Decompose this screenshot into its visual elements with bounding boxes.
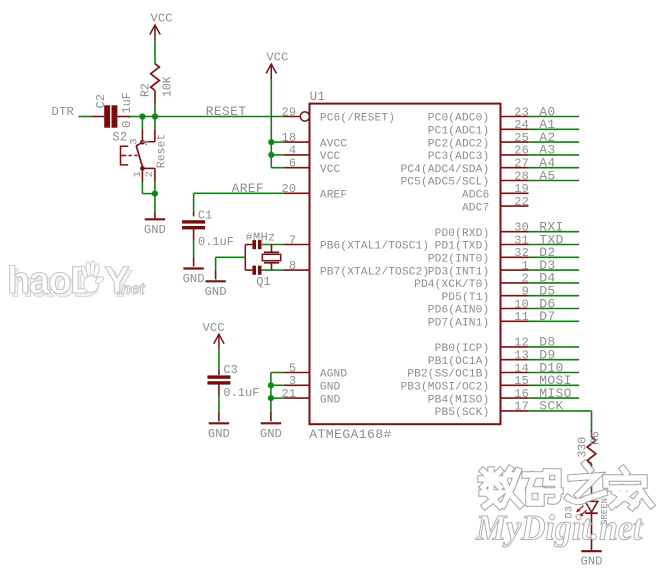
wire C3 to GND [218,385,220,395]
svg-text:AREF: AREF [320,190,347,202]
svg-text:29: 29 [281,105,296,119]
wire DTR to C2 [79,116,92,118]
pin 15 PB3(MOSI/OC2) (U1 right) [501,384,529,386]
svg-text:GND: GND [144,223,166,237]
capacitor C1 [193,193,195,212]
svg-text:R6: R6 [589,431,602,445]
pin 4 VCC (U1 left) [284,154,310,156]
svg-text:PC4(ADC4/SDA): PC4(ADC4/SDA) [400,164,489,176]
svg-text:AREF: AREF [232,181,264,196]
wire AREF net [194,192,284,194]
node junction GND pin21 [268,395,274,401]
wire net D4 [529,282,580,284]
svg-text:VCC: VCC [266,51,288,65]
svg-text:GND: GND [205,285,227,299]
pin 26 PC3(ADC3) (U1 right) [501,154,529,156]
pin 32 PD2(INT0) (U1 right) [501,256,529,258]
svg-text:PC0(ADC0): PC0(ADC0) [428,113,490,125]
wire net D7 [529,320,580,322]
svg-text:R2: R2 [139,83,152,97]
pin 19 ADC6 (U1 right) [501,192,529,194]
wire XTAL2 net [262,269,284,271]
capacitor C2 [104,105,110,127]
pin 20 AREF (U1 left) [284,192,310,194]
pin 12 PB0(ICP) (U1 right) [501,346,529,348]
svg-text:Reset: Reset [155,134,168,169]
wire net D2 [529,256,580,258]
svg-text:DTR: DTR [52,105,75,119]
svg-text:10K: 10K [161,76,174,97]
svg-text:PC3(ADC3): PC3(ADC3) [428,151,490,163]
svg-text:21: 21 [281,387,296,401]
svg-text:PD3(INT1): PD3(INT1) [428,266,490,278]
svg-text:PD0(RXD): PD0(RXD) [435,228,490,240]
switch S2 blade [136,142,142,146]
pin 24 PC1(ADC1) (U1 right) [501,128,529,130]
node junction S2/GND [152,191,158,197]
svg-text:2: 2 [144,171,156,177]
pin 6 VCC (U1 left) [284,167,310,169]
switch S2 bottom contact [140,166,145,171]
node junction VCC pin4 [268,152,274,158]
svg-text:11: 11 [514,310,529,324]
svg-text:PD2(INT0): PD2(INT0) [428,254,490,266]
svg-text:PB2(SS/OC1B): PB2(SS/OC1B) [407,369,489,381]
pin 3 GND (U1 left) [284,384,310,386]
svg-text:AVCC: AVCC [320,138,348,150]
svg-text:6: 6 [289,157,296,171]
pin 8 PB7(XTAL2/TOSC2) (U1 left) [284,269,310,271]
svg-text:PB7(XTAL2/TOSC2): PB7(XTAL2/TOSC2) [320,266,429,278]
svg-text:PD6(AIN0): PD6(AIN0) [428,305,490,317]
wire VCC to R2 [154,40,156,64]
svg-text:PB3(MOSI/OC2): PB3(MOSI/OC2) [400,382,489,394]
wire net RXI [529,231,580,233]
pin 22 ADC7 (U1 right) [501,205,529,207]
wire net D9 [529,359,580,361]
resistor R6 [587,437,596,464]
svg-text:PB5(SCK): PB5(SCK) [435,407,490,419]
svg-text:C2: C2 [94,94,108,108]
pin 10 PD6(AIN0) (U1 right) [501,308,529,310]
switch S2 pin 4 [154,117,156,130]
svg-text:ADC6: ADC6 [462,190,489,202]
wire net MOSI [529,384,580,386]
svg-text:GND: GND [183,272,205,286]
watermark logo MyDigit.net [475,464,651,548]
power symbol VCC (near U1) [270,64,272,79]
pin 25 PC2(ADC2) (U1 right) [501,141,529,143]
svg-text:GND: GND [320,394,341,406]
capacitor load cap bottom [252,266,256,275]
svg-text:ATMEGA168#: ATMEGA168# [309,427,392,442]
svg-text:330: 330 [577,437,590,458]
pin 1 PD3(INT1) (U1 right) [501,269,529,271]
power symbol VCC (top left) [154,25,156,40]
svg-text:.net: .net [117,281,145,298]
switch S2 pin 2 [142,167,155,169]
capacitor C3 [207,375,230,378]
pin 28 PC5(ADC5/SCL) (U1 right) [501,180,529,182]
svg-text:VCC: VCC [320,164,341,176]
wire net D8 [529,346,580,348]
switch S2 actuator bracket [121,146,129,165]
wire RESET net [142,116,284,118]
watermark logo haoDIY.net [7,260,145,306]
pin 5 AGND (U1 left) [284,372,310,374]
svg-text:22: 22 [514,195,529,209]
ground GND (LED) [581,550,601,552]
ground GND (U1 power) [261,422,281,424]
svg-text:PB4(MISO): PB4(MISO) [428,394,490,406]
svg-text:PC2(ADC2): PC2(ADC2) [428,138,490,150]
svg-text:7: 7 [289,233,296,247]
wire VCC to U1 power pins [270,79,272,168]
svg-text:PC1(ADC1): PC1(ADC1) [428,126,490,138]
svg-text:1: 1 [132,171,144,177]
svg-text:VCC: VCC [320,151,341,163]
LED D3 emission arrows [579,506,583,510]
svg-text:PB0(ICP): PB0(ICP) [435,343,490,355]
wire net A1 [529,128,580,130]
pin 17 PB5(SCK) (U1 right) [501,410,529,412]
pin 16 PB4(MISO) (U1 right) [501,397,529,399]
svg-text:GND: GND [581,555,603,568]
pin 30 PD0(RXD) (U1 right) [501,231,529,233]
pin 7 PB6(XTAL1/TOSC1) (U1 left) [284,244,310,246]
node junction GND pin3 [268,382,274,388]
switch S2 top contact [140,140,145,145]
svg-text:C3: C3 [223,363,237,377]
svg-text:MyDigit.net: MyDigit.net [475,508,644,548]
LED D3 [585,501,598,512]
wire net D3 [529,269,580,271]
wire C2 to RESET junction [117,116,129,118]
svg-text:ADC7: ADC7 [462,202,489,214]
svg-text:RESET: RESET [206,104,247,119]
pin 27 PC4(ADC4/SDA) (U1 right) [501,167,529,169]
svg-text:8: 8 [289,259,296,273]
svg-text:AGND: AGND [320,369,348,381]
svg-text:PD5(T1): PD5(T1) [441,292,489,304]
wire SCK to R6 [591,411,593,431]
pin 11 PD7(AIN1) (U1 right) [501,320,529,322]
wire LED to GND [591,513,593,550]
wire S2 to GND [142,193,155,195]
wire net SCK [529,410,592,412]
ground GND (C1) [183,267,203,269]
svg-text:VCC: VCC [151,12,173,26]
wire net A0 [529,116,580,118]
wire net D5 [529,295,580,297]
ground GND (crystal) [205,280,225,282]
svg-text:D7: D7 [539,309,555,324]
svg-text:GND: GND [320,382,341,394]
svg-text:Q1: Q1 [256,275,270,289]
svg-text:VCC: VCC [203,321,225,335]
node junction AVCC [268,139,274,145]
svg-text:#MHz: #MHz [246,230,276,244]
power symbol VCC (C3) [218,334,220,349]
svg-text:0.1uF: 0.1uF [223,386,259,400]
wire net D6 [529,308,580,310]
pin 9 PD5(T1) (U1 right) [501,295,529,297]
svg-text:PC6(/RESET): PC6(/RESET) [320,113,395,125]
svg-text:SCK: SCK [539,399,563,414]
wire R2 to RESET net [154,104,156,117]
svg-text:PD4(XCK/T0): PD4(XCK/T0) [414,279,489,291]
svg-text:4: 4 [140,139,152,145]
svg-text:S2: S2 [112,130,127,144]
svg-text:U1: U1 [310,90,326,104]
wire net A2 [529,141,580,143]
svg-text:0.1uF: 0.1uF [120,92,134,128]
pin 2 PD4(XCK/T0) (U1 right) [501,282,529,284]
pin 23 PC0(ADC0) (U1 right) [501,116,529,118]
switch S2 pin 1 [141,168,143,181]
ground GND (C3) [209,422,229,424]
svg-text:PD1(TXD): PD1(TXD) [435,241,490,253]
capacitor load cap top [252,240,256,249]
node junction C2/S2 [139,113,145,119]
svg-text:0.1uF: 0.1uF [198,235,234,249]
svg-text:haoD Y: haoD Y [7,260,129,302]
switch S2 pin 3 [141,117,143,130]
wire net MISO [529,397,580,399]
wire net A3 [529,154,580,156]
wire net TXD [529,244,580,246]
svg-text:PB1(OC1A): PB1(OC1A) [428,356,490,368]
wire AGND/GND pins to GND [271,372,284,374]
wire net A5 [529,180,580,182]
svg-text:GND: GND [208,427,230,441]
pin 21 GND (U1 left) [284,397,310,399]
pin 29 stub with inversion circle [284,116,300,118]
svg-text:PB6(XTAL1/TOSC1): PB6(XTAL1/TOSC1) [320,241,429,253]
wire net D10 [529,372,580,374]
pin 13 PB1(OC1A) (U1 right) [501,359,529,361]
crystal Q1 [271,245,273,253]
svg-text:PC5(ADC5/SCL): PC5(ADC5/SCL) [400,177,489,189]
svg-text:C1: C1 [198,208,212,222]
node junction R2/RESET [152,113,158,119]
resistor R2 [151,64,160,91]
pin 18 AVCC (U1 left) [284,141,310,143]
wire caps common to GND [244,245,246,271]
op-amp U1 ATMEGA168 body [310,104,501,425]
svg-text:A5: A5 [539,168,555,183]
svg-text:20: 20 [281,182,296,196]
svg-text:GND: GND [260,427,282,441]
svg-text:17: 17 [514,400,529,414]
svg-text:3: 3 [129,138,141,144]
wire C1 to GND [193,229,195,240]
wire net A4 [529,167,580,169]
pin 14 PB2(SS/OC1B) (U1 right) [501,372,529,374]
wire XTAL1 net [262,244,284,246]
wire VCC to C3 [218,349,220,370]
svg-text:PD7(AIN1): PD7(AIN1) [428,318,490,330]
pin 31 PD1(TXD) (U1 right) [501,244,529,246]
wire R6 to LED [591,464,593,471]
ground GND (S2) [145,218,165,220]
